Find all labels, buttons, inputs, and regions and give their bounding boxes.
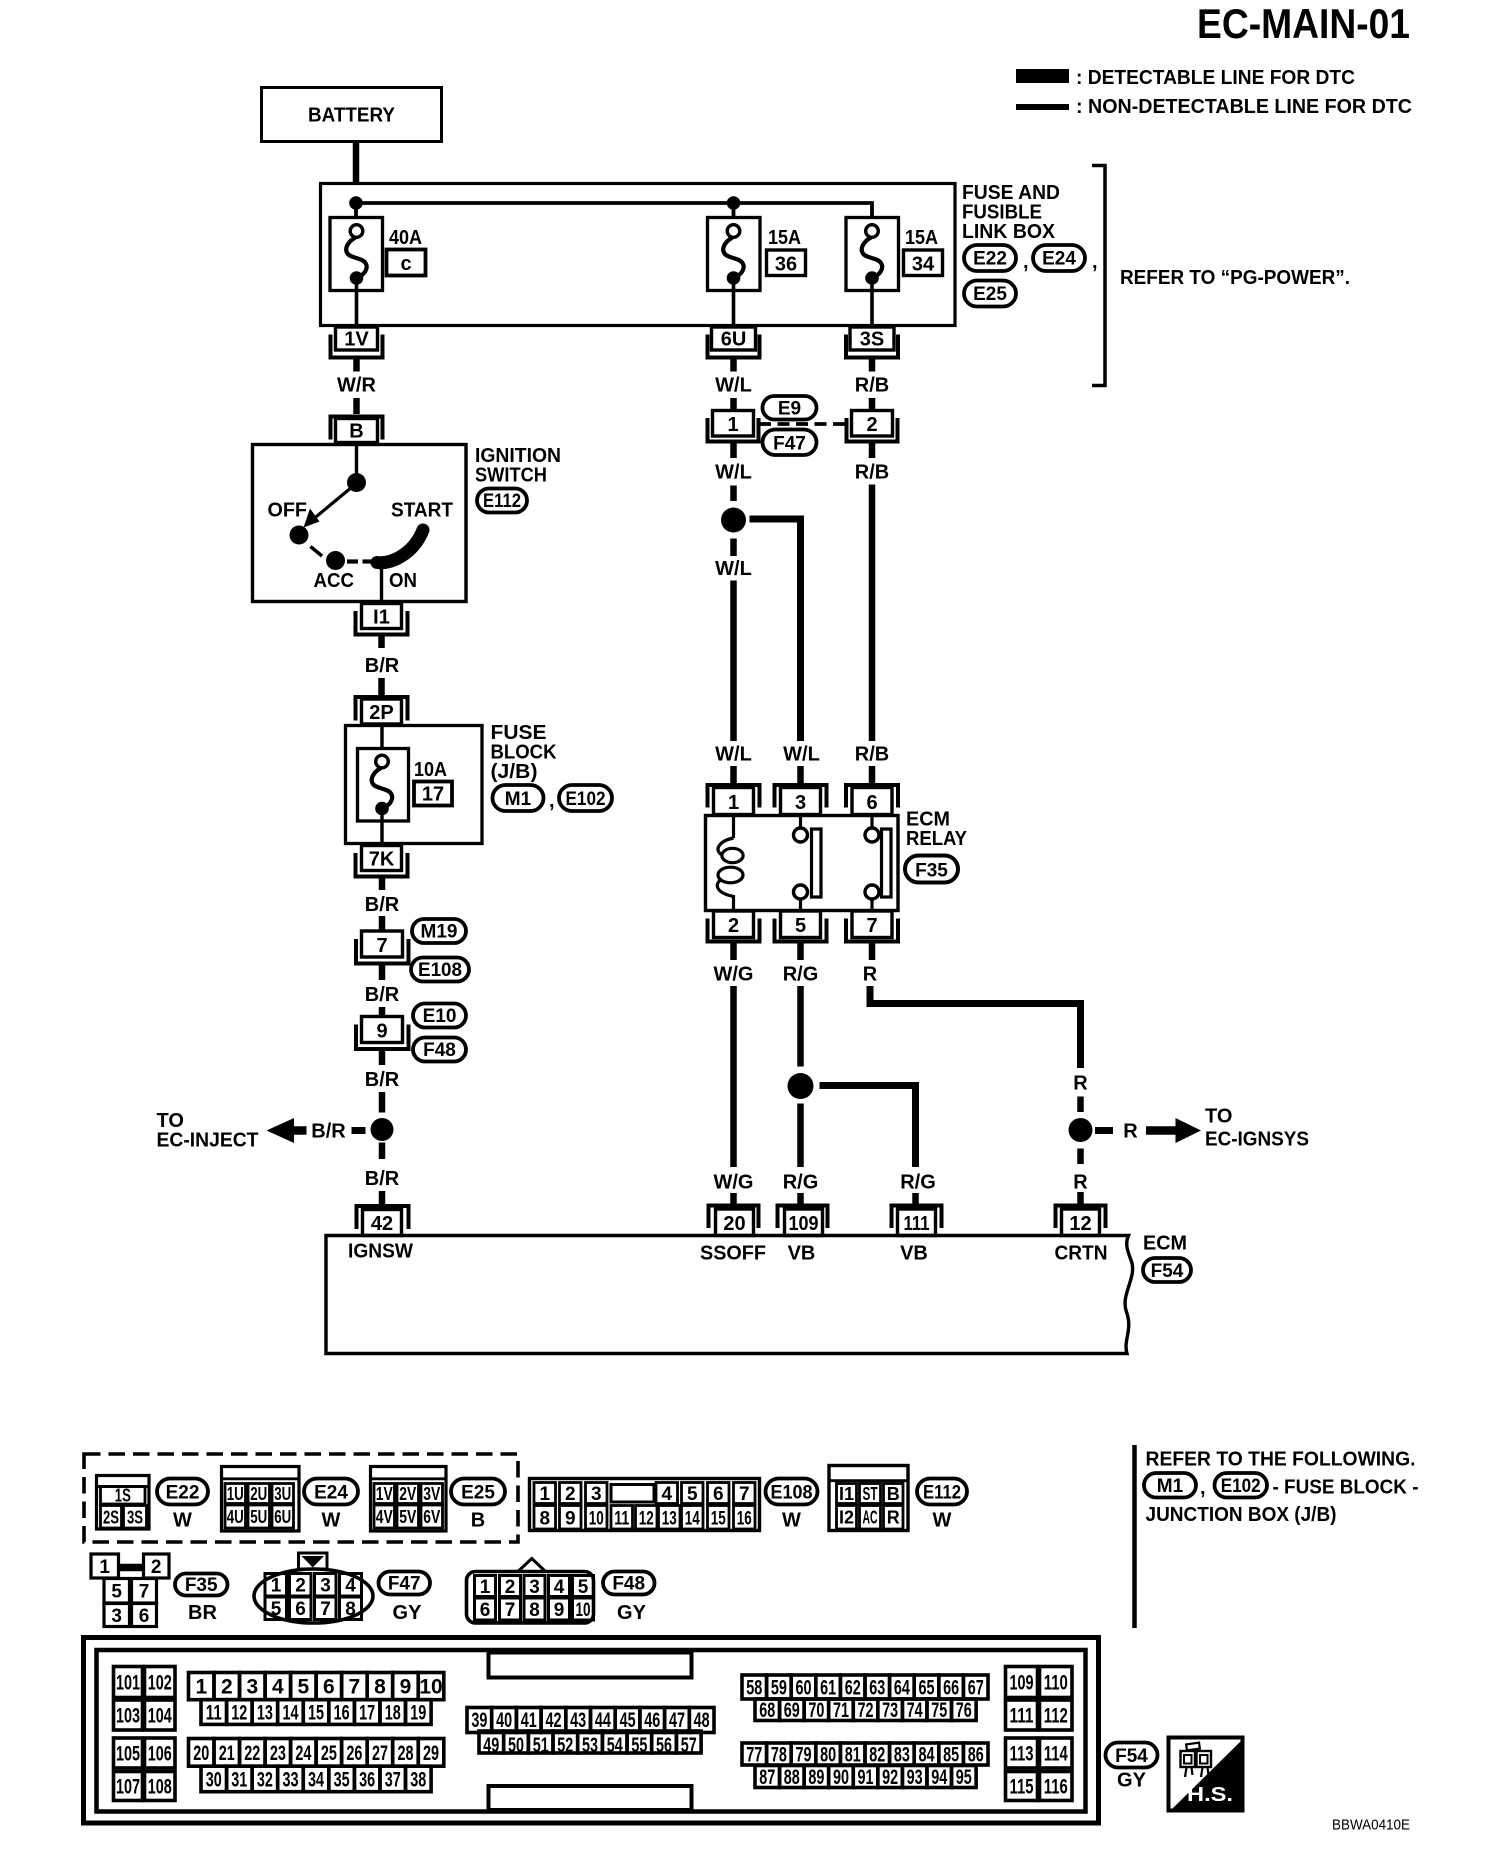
wire 3S stub (869, 360, 876, 372)
svg-text:5V: 5V (399, 1507, 416, 1527)
ECM connector bottom keyway (489, 1786, 692, 1810)
ECM pins 39-57 grid (467, 1708, 714, 1758)
relay contact pins 6-7 (870, 816, 873, 829)
connector ref F54 oval (1143, 1258, 1191, 1282)
svg-text:5: 5 (111, 1582, 122, 1603)
svg-text:4: 4 (554, 1577, 565, 1598)
branch wire to VB 111 (820, 1086, 916, 1168)
svg-text:E108: E108 (418, 960, 462, 981)
wire stub below pin 5 (797, 944, 804, 961)
svg-text:106: 106 (148, 1743, 172, 1766)
svg-text:64: 64 (894, 1677, 910, 1700)
svg-text:13: 13 (257, 1702, 273, 1725)
arrow to EC-IGNSYS (1146, 1126, 1177, 1135)
svg-text:I1: I1 (839, 1484, 854, 1504)
svg-text:8: 8 (374, 1676, 386, 1699)
svg-text:112: 112 (1044, 1705, 1068, 1728)
svg-text:F48: F48 (612, 1574, 645, 1595)
svg-text:10: 10 (589, 1509, 604, 1530)
svg-text:36: 36 (775, 254, 797, 276)
svg-text:82: 82 (869, 1744, 885, 1767)
svg-text:3: 3 (246, 1676, 258, 1699)
svg-text:8: 8 (539, 1509, 550, 1530)
connector ref F35 oval (905, 856, 958, 883)
svg-text:F54: F54 (1151, 1261, 1184, 1282)
svg-text:9: 9 (554, 1600, 565, 1621)
svg-text:15A: 15A (905, 227, 938, 249)
svg-text:9: 9 (376, 1021, 387, 1043)
svg-text:5: 5 (795, 915, 806, 937)
svg-text:7K: 7K (369, 849, 395, 871)
connector ref M19 oval (412, 919, 466, 943)
branch wire to pin 3 column (750, 519, 801, 741)
ECM pins 20-38 grid (189, 1739, 444, 1792)
svg-text:40: 40 (496, 1709, 512, 1732)
svg-text:R/G: R/G (783, 964, 819, 986)
node W/L branch (721, 508, 746, 533)
svg-text:54: 54 (607, 1734, 623, 1757)
svg-text:B: B (471, 1510, 485, 1532)
svg-text:87: 87 (759, 1766, 775, 1789)
svg-text:20: 20 (193, 1742, 209, 1765)
svg-text:46: 46 (644, 1709, 660, 1732)
ECM connector top keyway (489, 1653, 692, 1678)
svg-text:53: 53 (582, 1734, 598, 1757)
svg-text:2V: 2V (399, 1484, 416, 1504)
svg-text:50: 50 (508, 1734, 524, 1757)
svg-text:107: 107 (116, 1776, 140, 1799)
dash below R node (1077, 1149, 1084, 1165)
wire inside switch (355, 446, 358, 478)
svg-text:16: 16 (737, 1509, 752, 1530)
ECM relay box (706, 816, 899, 911)
svg-text:M19: M19 (421, 922, 458, 943)
svg-text:- FUSE BLOCK -: - FUSE BLOCK - (1273, 1477, 1419, 1499)
wire B/R (378, 678, 385, 695)
svg-text:26: 26 (346, 1742, 362, 1765)
wire B/R stub (379, 1191, 386, 1205)
svg-text:SWITCH: SWITCH (475, 465, 547, 487)
svg-text:55: 55 (631, 1734, 647, 1757)
relay coil (732, 816, 735, 839)
svg-text:60: 60 (796, 1677, 812, 1700)
svg-text:E112: E112 (483, 491, 521, 512)
fuse 40A c body (330, 218, 383, 291)
svg-text:34: 34 (308, 1769, 324, 1792)
svg-text:2: 2 (295, 1576, 306, 1597)
relay pin 3 (775, 785, 827, 808)
svg-text:5: 5 (687, 1484, 698, 1505)
svg-text:57: 57 (681, 1734, 697, 1757)
battery (262, 88, 442, 142)
wire stub to relay pin 3 (797, 766, 804, 783)
connector ref F48 oval (413, 1038, 466, 1062)
fuse 36 number box (767, 250, 806, 276)
svg-text:W: W (322, 1510, 341, 1532)
svg-text:110: 110 (1044, 1672, 1068, 1695)
wire 7K stub (379, 879, 386, 891)
svg-text:4: 4 (272, 1676, 284, 1699)
dashed ground/splice group box (84, 1454, 518, 1542)
svg-text:29: 29 (423, 1742, 439, 1765)
connector ref E108 oval bottom (766, 1479, 818, 1505)
connector ref E22 oval (964, 245, 1016, 271)
svg-text:c: c (400, 253, 411, 275)
wire 1V stub (353, 360, 360, 372)
svg-text:3U: 3U (274, 1484, 291, 1504)
svg-text:TO: TO (1205, 1106, 1232, 1128)
dash OFF to ACC (311, 547, 323, 557)
svg-text:VB: VB (788, 1243, 816, 1265)
svg-text:R: R (863, 964, 878, 986)
svg-text:21: 21 (219, 1742, 235, 1765)
svg-text:24: 24 (295, 1742, 311, 1765)
connector icon E22 (97, 1476, 150, 1530)
svg-text:116: 116 (1044, 1776, 1068, 1799)
svg-text:CRTN: CRTN (1055, 1243, 1108, 1265)
dash R to node (1077, 1097, 1084, 1113)
wire R/B (869, 398, 876, 411)
svg-text:R: R (1073, 1172, 1088, 1194)
svg-text:3S: 3S (860, 329, 884, 351)
connector icon F47 (254, 1553, 373, 1623)
connector icon E108 (530, 1479, 760, 1531)
svg-text:B/R: B/R (365, 1168, 400, 1190)
wire R/G stub (797, 1193, 804, 1205)
node battery feed (349, 196, 363, 210)
svg-text:W: W (173, 1510, 192, 1532)
separator line (1132, 1445, 1137, 1628)
svg-text:E25: E25 (461, 1483, 495, 1504)
svg-text:W/L: W/L (715, 558, 752, 580)
svg-text:E22: E22 (973, 249, 1007, 270)
svg-text:ACC: ACC (314, 570, 355, 592)
svg-text:W/L: W/L (715, 744, 752, 766)
wire R/G stub (912, 1193, 919, 1205)
svg-text:3V: 3V (423, 1484, 440, 1504)
svg-text:E22: E22 (166, 1483, 200, 1504)
legend detectable line swatch (1016, 69, 1069, 83)
fuse block J/B box (346, 726, 483, 844)
ECM pins 77-95 grid (742, 1743, 988, 1789)
wire W/G long (730, 986, 737, 1167)
svg-text:69: 69 (784, 1699, 800, 1722)
ECM connector F54 inner box (97, 1650, 1086, 1812)
svg-text:25: 25 (321, 1742, 337, 1765)
relay pin 1 (708, 785, 760, 808)
ECM pins 101-108 grid (114, 1667, 176, 1801)
svg-text:76: 76 (956, 1699, 972, 1722)
ignition switch box (253, 445, 467, 602)
svg-text:7: 7 (349, 1676, 361, 1699)
svg-text:41: 41 (521, 1709, 537, 1732)
svg-text:F54: F54 (1115, 1746, 1148, 1767)
svg-text:E24: E24 (314, 1483, 348, 1504)
svg-text:F35: F35 (185, 1575, 218, 1596)
connector 7 (362, 931, 403, 957)
connector ref E25 oval bottom (451, 1479, 505, 1505)
svg-text:11: 11 (614, 1509, 629, 1530)
feed wire inside fuse box (356, 203, 872, 226)
svg-text:68: 68 (759, 1699, 775, 1722)
svg-text:R: R (1073, 1073, 1088, 1095)
svg-text:M1: M1 (505, 789, 532, 810)
svg-text:18: 18 (385, 1702, 401, 1725)
svg-text:7: 7 (376, 935, 387, 957)
connector ref E10 oval (413, 1004, 466, 1028)
svg-text:1V: 1V (376, 1484, 393, 1504)
svg-text:70: 70 (808, 1699, 824, 1722)
svg-text:48: 48 (694, 1709, 710, 1732)
svg-text:56: 56 (656, 1734, 672, 1757)
svg-text:6: 6 (139, 1606, 150, 1627)
svg-text:6: 6 (323, 1676, 335, 1699)
svg-text:2: 2 (728, 915, 739, 937)
svg-text:49: 49 (483, 1734, 499, 1757)
svg-text:W/R: W/R (337, 375, 376, 397)
svg-text:13: 13 (662, 1509, 677, 1530)
svg-text:103: 103 (116, 1705, 140, 1728)
svg-text:66: 66 (943, 1677, 959, 1700)
wire R corner to CRTN column (870, 986, 1081, 1068)
wire below connector 1 (730, 444, 737, 459)
svg-text:16: 16 (334, 1702, 350, 1725)
svg-text:104: 104 (148, 1705, 172, 1728)
wire 7 stub (379, 966, 386, 981)
svg-text:37: 37 (385, 1769, 401, 1792)
svg-text:33: 33 (283, 1769, 299, 1792)
svg-text:E10: E10 (423, 1006, 457, 1027)
svg-text:ST: ST (863, 1484, 878, 1504)
svg-text:BBWA0410E: BBWA0410E (1332, 1817, 1410, 1834)
svg-text:E102: E102 (566, 789, 606, 810)
svg-text:: DETECTABLE LINE FOR DTC: : DETECTABLE LINE FOR DTC (1076, 67, 1355, 89)
wire 6U stub (730, 360, 737, 372)
svg-text:12: 12 (639, 1509, 654, 1530)
svg-text:101: 101 (116, 1672, 140, 1695)
svg-text:72: 72 (858, 1699, 874, 1722)
dash W/L (730, 486, 737, 502)
svg-text:I2: I2 (839, 1508, 854, 1528)
connector ref E25 oval (964, 281, 1016, 307)
svg-text:3: 3 (795, 792, 806, 814)
svg-text:44: 44 (595, 1709, 611, 1732)
connector icon E25 (371, 1467, 447, 1532)
svg-text:7: 7 (139, 1582, 150, 1603)
node fuse 36 feed (727, 196, 741, 210)
svg-text:6: 6 (713, 1484, 724, 1505)
dash ACC to ON (347, 559, 358, 563)
svg-text:58: 58 (746, 1677, 762, 1700)
svg-text:GY: GY (617, 1602, 647, 1624)
svg-text:B/R: B/R (311, 1121, 346, 1143)
svg-text:1V: 1V (344, 329, 369, 351)
ECM pins 1-19 grid (189, 1673, 444, 1725)
ECM connector F54 outer box (84, 1638, 1099, 1824)
svg-text:42: 42 (546, 1709, 562, 1732)
svg-text:91: 91 (858, 1766, 874, 1789)
svg-text:9: 9 (565, 1509, 576, 1530)
fuse 15A 34 body (846, 218, 899, 291)
wire stub to relay pin 1 (730, 766, 737, 783)
svg-text:R/B: R/B (855, 744, 889, 766)
svg-text:2: 2 (151, 1557, 162, 1578)
connector ref F47 oval bottom (379, 1572, 431, 1595)
svg-text:7: 7 (739, 1484, 750, 1505)
svg-text:F47: F47 (388, 1574, 421, 1595)
wire R/G below node (797, 1104, 804, 1168)
svg-text:6: 6 (295, 1599, 306, 1620)
ECM pin 12 (1056, 1206, 1106, 1229)
svg-text:3: 3 (591, 1484, 602, 1505)
svg-text:1S: 1S (115, 1486, 131, 1506)
bracket refer to pg-power (1092, 166, 1105, 386)
wire stub below pin 7 (869, 944, 876, 961)
svg-text:95: 95 (956, 1766, 972, 1789)
svg-text:63: 63 (869, 1677, 885, 1700)
wire stub to relay pin 6 (869, 766, 876, 783)
svg-text:14: 14 (685, 1509, 700, 1530)
svg-text:E24: E24 (1042, 249, 1076, 270)
svg-text:R/B: R/B (855, 462, 889, 484)
svg-text:51: 51 (533, 1734, 549, 1757)
switch wiper arrow (311, 487, 352, 521)
connector ref E112 oval (477, 489, 527, 513)
dash node to arrow (1095, 1127, 1113, 1134)
connector ref E102 oval (559, 785, 612, 811)
wire fuse 17 to 7K (380, 814, 383, 844)
wire R/G to node (797, 986, 804, 1067)
OFF contact (290, 526, 309, 545)
svg-text:88: 88 (784, 1766, 800, 1789)
svg-text:14: 14 (283, 1702, 299, 1725)
relay pin 2 (714, 911, 754, 938)
svg-text:2S: 2S (103, 1508, 119, 1528)
svg-text:W: W (933, 1510, 952, 1532)
connector 9 (362, 1017, 403, 1043)
svg-text:E9: E9 (778, 399, 801, 420)
svg-text:71: 71 (833, 1699, 849, 1722)
svg-text:R/G: R/G (900, 1172, 936, 1194)
svg-text:B/R: B/R (365, 655, 400, 677)
svg-text:6V: 6V (423, 1507, 440, 1527)
svg-text:2: 2 (505, 1577, 516, 1598)
svg-text:84: 84 (919, 1744, 935, 1767)
svg-text:1: 1 (480, 1577, 491, 1598)
connector 7K (362, 846, 402, 871)
svg-text:M1: M1 (1157, 1476, 1184, 1497)
svg-text:102: 102 (148, 1672, 172, 1695)
svg-text:F48: F48 (423, 1040, 456, 1061)
connector 3S (850, 327, 894, 350)
svg-text:27: 27 (372, 1742, 388, 1765)
wire ON to I1 (380, 563, 383, 601)
svg-text:47: 47 (669, 1709, 685, 1732)
svg-text:EC-IGNSYS: EC-IGNSYS (1205, 1129, 1309, 1151)
svg-text:38: 38 (410, 1769, 426, 1792)
svg-text:B: B (349, 421, 363, 443)
svg-text:6U: 6U (721, 329, 747, 351)
wire 2P to fuse 17 (380, 726, 383, 756)
wire W/L (730, 398, 737, 411)
svg-text:80: 80 (820, 1744, 836, 1767)
svg-text:BATTERY: BATTERY (308, 105, 396, 127)
svg-text:JUNCTION BOX (J/B): JUNCTION BOX (J/B) (1146, 1504, 1337, 1526)
svg-text:IGNSW: IGNSW (348, 1241, 413, 1263)
relay pin 6 (846, 785, 898, 808)
svg-text:73: 73 (882, 1699, 898, 1722)
svg-text:R: R (1123, 1121, 1138, 1143)
svg-text:108: 108 (148, 1776, 172, 1799)
relay pin 7 (852, 911, 892, 938)
connector ref E22 oval bottom (157, 1479, 208, 1505)
connector 1V (336, 327, 378, 350)
connector ref M1 oval (1144, 1473, 1196, 1498)
svg-text:: NON-DETECTABLE LINE FOR DTC: : NON-DETECTABLE LINE FOR DTC (1076, 96, 1412, 118)
svg-text:B/R: B/R (365, 1069, 400, 1091)
svg-text:E108: E108 (771, 1483, 813, 1504)
svg-text:78: 78 (771, 1744, 787, 1767)
svg-text:5: 5 (271, 1599, 282, 1620)
wire R/B long (869, 485, 876, 742)
svg-text:10A: 10A (414, 759, 447, 781)
fuse 34 number box (904, 250, 943, 276)
svg-text:2U: 2U (250, 1484, 267, 1504)
connector ref E24 oval bottom (304, 1479, 358, 1505)
svg-text:23: 23 (270, 1742, 286, 1765)
svg-text:15A: 15A (768, 227, 801, 249)
legend non-detectable line swatch (1016, 104, 1069, 110)
svg-text:F35: F35 (915, 861, 948, 882)
connector I1 (362, 604, 402, 629)
svg-text:94: 94 (931, 1766, 947, 1789)
fuse 10A 17 body (358, 749, 409, 822)
svg-text:81: 81 (845, 1744, 861, 1767)
connector icon F48 (467, 1559, 594, 1624)
svg-text:11: 11 (206, 1702, 222, 1725)
svg-text:ECM: ECM (1143, 1233, 1187, 1255)
svg-text:74: 74 (907, 1699, 923, 1722)
fuse 15A 36 body (708, 218, 761, 291)
svg-text:1: 1 (728, 792, 739, 814)
svg-text:,: , (1092, 251, 1098, 273)
svg-text:34: 34 (912, 254, 935, 276)
svg-text:(J/B): (J/B) (491, 761, 538, 783)
connector ref M1 oval (493, 785, 544, 811)
svg-text:59: 59 (771, 1677, 787, 1700)
svg-text:F47: F47 (773, 434, 806, 455)
connector icon E112 (829, 1466, 908, 1531)
svg-text:111: 111 (1010, 1705, 1034, 1728)
svg-text:VB: VB (900, 1243, 928, 1265)
svg-text:B: B (887, 1484, 900, 1504)
svg-text:LINK BOX: LINK BOX (962, 221, 1056, 243)
svg-text:28: 28 (398, 1742, 414, 1765)
svg-text:61: 61 (820, 1677, 836, 1700)
svg-text:3: 3 (529, 1577, 540, 1598)
svg-text:30: 30 (206, 1769, 222, 1792)
svg-text:1: 1 (727, 414, 738, 436)
ON-START sweep arc (377, 530, 423, 563)
svg-text:W/G: W/G (714, 964, 754, 986)
svg-text:20: 20 (723, 1213, 745, 1235)
svg-text:5: 5 (298, 1676, 310, 1699)
wire W/R (353, 398, 360, 414)
svg-text:6: 6 (866, 792, 877, 814)
wire fuse c to 1V (355, 284, 359, 327)
svg-text:115: 115 (1010, 1776, 1034, 1799)
svg-text:7: 7 (505, 1600, 516, 1621)
